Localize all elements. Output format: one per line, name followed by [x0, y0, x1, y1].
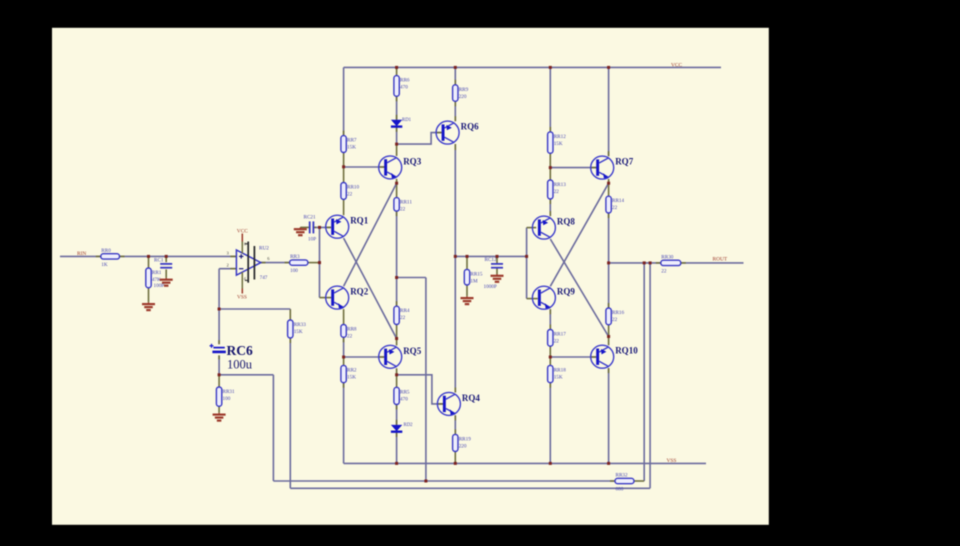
svg-text:220: 220	[459, 443, 467, 449]
wire RC21 ground lead	[300, 226, 309, 228]
resistor RR6	[394, 76, 410, 97]
wire RR31 to ground	[218, 406, 220, 413]
svg-text:RR5: RR5	[400, 389, 410, 395]
svg-text:1000P: 1000P	[484, 284, 497, 290]
wire RC12 to ground	[496, 268, 498, 274]
wire RR3 to base node	[308, 262, 320, 264]
transistor RQ10	[591, 345, 614, 368]
wire RC1 tap down	[165, 256, 167, 262]
svg-text:15K: 15K	[347, 145, 356, 151]
svg-text:22: 22	[347, 192, 353, 198]
junction RR15 tap	[466, 255, 469, 258]
junction VSS-RR19	[454, 462, 457, 465]
svg-text:100: 100	[223, 396, 231, 402]
svg-text:RR18: RR18	[554, 367, 567, 373]
svg-text:RR6: RR6	[400, 78, 410, 84]
wire RR6 to diode RD1	[396, 96, 398, 120]
svg-text:RR7: RR7	[347, 138, 357, 144]
junction op-amp inverting node	[218, 308, 221, 311]
wire RC12 tap	[496, 256, 498, 263]
wire column B from VCC to RR6	[396, 67, 398, 75]
wire RQ6 base lead	[397, 133, 442, 145]
wire node line C1 to F	[455, 255, 526, 257]
svg-text:RR30: RR30	[661, 254, 674, 260]
resistor RR3	[290, 254, 308, 274]
svg-text:680: 680	[616, 487, 624, 493]
wire op-amp inverting input	[219, 268, 236, 270]
wire RR0 to op-amp plus input	[120, 255, 237, 257]
wire RQ10 base	[550, 356, 596, 358]
wire RR16 to node E2	[608, 325, 610, 337]
wire node A1 to RR10	[343, 167, 345, 183]
svg-text:RQ6: RQ6	[461, 122, 480, 132]
resistor RR7	[341, 136, 357, 153]
junction RQ7 base node	[549, 166, 552, 169]
wire RQ4 emitter to RR19	[454, 415, 456, 434]
junction RQ5 emitter node	[395, 373, 398, 376]
junction RC12 tap	[496, 255, 499, 258]
svg-text:RC6: RC6	[227, 343, 253, 358]
svg-text:100u: 100u	[227, 358, 253, 372]
svg-text:RR13: RR13	[554, 182, 567, 188]
wire RQ8 base	[527, 227, 537, 229]
wire base tie RQ1 RQ2	[319, 227, 321, 297]
junction RQ3 base node	[342, 165, 345, 168]
wire node D1 to RR13	[549, 168, 551, 180]
svg-text:RR17: RR17	[554, 332, 567, 338]
ground at RC21	[294, 227, 307, 235]
junction VSS-RR18	[549, 462, 552, 465]
wire output after RR30 to ROUT	[681, 262, 744, 264]
svg-text:VSS: VSS	[667, 458, 677, 464]
wire bottom feedback line 1 right part	[634, 480, 644, 482]
svg-text:22: 22	[400, 315, 406, 321]
wire node B3 to RR4	[396, 278, 398, 307]
wire feedback drop 1	[643, 263, 645, 481]
capacitor RC21	[304, 214, 317, 242]
wire RR2 to VSS rail	[343, 383, 345, 464]
svg-text:22: 22	[347, 334, 353, 340]
resistor RR9	[453, 85, 469, 102]
transistor RQ2	[326, 286, 349, 309]
transistor RQ5	[379, 345, 402, 368]
svg-text:22: 22	[661, 268, 667, 274]
resistor RR19	[453, 434, 472, 451]
wire branch down to bottom feedback line	[425, 278, 427, 482]
wire node B1 to RQ3 collector	[396, 144, 398, 156]
svg-text:RQ3: RQ3	[403, 156, 422, 166]
op-amp RU2	[236, 250, 260, 275]
wire RD2 to VSS rail	[396, 432, 398, 464]
resistor RR30	[661, 254, 681, 274]
ground at RR1	[142, 302, 155, 310]
junction RQ10 base node	[549, 356, 552, 359]
resistor RR12	[548, 132, 567, 153]
wire op-amp inverting node branch	[219, 308, 290, 310]
wire RC6 node branch	[219, 374, 273, 376]
wire RD1 to node B1	[396, 127, 398, 144]
wire VSS rail	[344, 462, 706, 464]
wire RR9 to RQ6 emitter	[454, 101, 456, 121]
resistor RR10	[341, 183, 360, 200]
wire RC1 to ground	[165, 269, 167, 278]
svg-text:1M: 1M	[470, 278, 478, 284]
svg-text:RR0: RR0	[101, 248, 111, 254]
wire node line RR15 RC12 taps	[466, 256, 468, 269]
svg-text:RR31: RR31	[223, 389, 236, 395]
svg-text:RR16: RR16	[612, 310, 625, 316]
svg-text:470: 470	[400, 396, 408, 402]
wire node B2 to RR11	[396, 183, 398, 197]
junction RQ5 base node	[342, 356, 345, 359]
wire RQ5 base	[344, 356, 385, 358]
op-amp power bars	[245, 242, 255, 283]
svg-text:22: 22	[554, 189, 560, 195]
junction RQ3 emitter node	[395, 182, 398, 185]
junction RR3 node	[318, 261, 321, 264]
resistor RR11	[394, 198, 412, 213]
svg-text:220: 220	[459, 94, 467, 100]
svg-text:VSS: VSS	[237, 295, 247, 301]
svg-text:RR12: RR12	[554, 134, 567, 140]
junction VCC-RR9	[454, 66, 457, 69]
transistor RQ6	[436, 121, 459, 144]
op-amp VCC pin	[241, 234, 243, 254]
wire cross-couple RQ3 emitter to RQ2 collector	[344, 183, 397, 286]
wire bottom feedback line 1 left part	[273, 480, 615, 482]
resistor RR8	[341, 325, 357, 340]
junction VCC-RQ7	[607, 66, 610, 69]
junction output node	[607, 261, 610, 264]
wire node A2 to RR2	[343, 357, 345, 365]
wire RR14 to output node	[608, 213, 610, 263]
wire RR5 to diode RD2	[396, 405, 398, 425]
wire RR8 to node A2	[343, 337, 345, 357]
svg-text:RQ9: RQ9	[557, 287, 576, 297]
wire RQ5 emitter to node B5	[396, 368, 398, 375]
resistor RR2	[341, 365, 357, 382]
svg-text:15K: 15K	[554, 374, 563, 380]
svg-text:10P: 10P	[308, 237, 316, 243]
wire column C VCC to RR9	[454, 67, 456, 84]
resistor RR5	[394, 387, 410, 404]
wire node C1 to RQ4 collector	[454, 256, 456, 392]
wire node E1 to RR14	[608, 183, 610, 196]
wire RQ3 base	[344, 166, 386, 168]
junction VSS-RD2	[395, 462, 398, 465]
wire RC6 to node	[218, 355, 220, 374]
svg-text:RD1: RD1	[402, 118, 412, 123]
wire RR1 to ground	[148, 288, 150, 303]
wire op-amp inverting node down	[218, 269, 220, 309]
ground at RR15	[461, 296, 474, 304]
junction base tie right	[525, 255, 528, 258]
svg-text:15K: 15K	[554, 141, 563, 147]
wire RQ3 emitter to node B2	[396, 179, 398, 183]
junction RD1-RQ6 base	[395, 143, 398, 146]
wire RR4 to node B4	[396, 325, 398, 339]
resistor RR15	[464, 269, 483, 285]
wire RR1 tap down	[148, 256, 150, 268]
svg-text:RR10: RR10	[347, 185, 360, 191]
svg-text:RC1: RC1	[154, 258, 164, 264]
svg-text:RD2: RD2	[404, 423, 414, 428]
capacitor RC1	[154, 258, 173, 290]
junction RC1 tap	[165, 255, 168, 258]
wire input line	[60, 255, 101, 257]
svg-text:RQ2: RQ2	[350, 287, 369, 297]
junction RQ7 emitter node	[607, 182, 610, 185]
svg-text:VCC: VCC	[237, 229, 248, 235]
wire column E VCC to RQ7 collector	[608, 67, 610, 156]
svg-text:RR32: RR32	[616, 473, 629, 479]
junction bottom line tap	[424, 480, 427, 483]
capacitor RC12	[484, 257, 504, 290]
junction VCC-RR6	[395, 66, 398, 69]
svg-text:RIN: RIN	[77, 251, 86, 257]
wire RR11 to node B3	[396, 211, 398, 277]
diode RD1	[391, 118, 412, 127]
diode RD2	[391, 423, 413, 432]
svg-text:8: 8	[244, 242, 246, 247]
junction feedback 1	[643, 261, 646, 264]
wire RR10 to RQ1 collector	[343, 199, 345, 215]
wire RQ4 base path	[397, 375, 443, 404]
svg-text:22: 22	[400, 207, 406, 213]
svg-text:22: 22	[612, 317, 618, 323]
wire column A upper (VCC to RR7)	[343, 67, 345, 135]
junction RR11-RR4 tap	[395, 276, 398, 279]
ground at RR31	[213, 413, 226, 421]
wire column D VCC to RR12	[549, 67, 551, 131]
transistor RQ8	[532, 216, 555, 239]
svg-text:RQ1: RQ1	[350, 216, 369, 226]
resistor RR1	[146, 268, 162, 288]
wire cross-couple RQ7 emitter to RQ9 collector	[550, 183, 608, 286]
wire output node to RR16	[608, 263, 610, 308]
svg-text:747: 747	[260, 275, 268, 281]
capacitor RC6 (polarized)	[210, 344, 226, 352]
wire RR33 to op-amp node	[289, 309, 291, 320]
transistor RQ3	[379, 156, 402, 179]
svg-text:RQ8: RQ8	[557, 217, 576, 227]
wire node B5 to RR5	[396, 375, 398, 388]
wire node E2 to RQ10 collector	[608, 337, 610, 346]
junction VSS-RQ10	[607, 462, 610, 465]
junction VCC-RR12	[549, 66, 552, 69]
transistor RQ9	[532, 286, 555, 309]
wire RQ2 emitter to RR8	[343, 309, 345, 324]
wire base tie column F	[526, 228, 528, 299]
ground at RC12	[491, 274, 504, 282]
svg-text:RR3: RR3	[290, 254, 300, 260]
resistor RR4	[394, 306, 410, 324]
svg-text:RR4: RR4	[400, 308, 410, 314]
resistor RR33	[288, 320, 307, 338]
wire node B4 to RQ5 collector	[396, 339, 398, 346]
svg-text:RR15: RR15	[470, 271, 483, 277]
svg-text:ROUT: ROUT	[713, 257, 728, 263]
op-amp VSS pin	[241, 272, 243, 293]
svg-text:RR33: RR33	[294, 322, 307, 328]
wire node D2 to RR18	[549, 357, 551, 365]
wire RR13 to RQ8 collector	[549, 199, 551, 216]
junction node C1	[454, 255, 457, 258]
svg-text:RR11: RR11	[400, 200, 412, 206]
junction RQ1 base	[318, 226, 321, 229]
transistor RQ7	[591, 156, 614, 179]
wire op-amp node to RC6	[218, 309, 220, 344]
svg-text:RC12: RC12	[485, 257, 498, 263]
wire RQ2 base	[320, 297, 332, 299]
wire RR7 to node A1	[343, 153, 345, 167]
svg-text:VCC: VCC	[671, 63, 682, 69]
svg-text:RR9: RR9	[459, 87, 469, 93]
svg-text:RQ5: RQ5	[403, 346, 422, 356]
svg-text:RR8: RR8	[347, 327, 357, 333]
resistor RR32	[615, 473, 634, 493]
svg-text:470: 470	[400, 85, 408, 91]
resistor RR0	[101, 248, 120, 268]
wire feedback riser to RR33	[289, 338, 291, 488]
svg-text:RQ10: RQ10	[615, 346, 638, 356]
wire output line	[609, 262, 661, 264]
wire cross-couple RQ8 emitter to node E2	[550, 239, 608, 337]
resistor RR14	[606, 196, 625, 213]
svg-text:RR1: RR1	[152, 270, 162, 276]
ground at RC1	[160, 278, 173, 286]
wire RQ1 base	[313, 226, 331, 228]
wire RQ10 emitter to VSS rail	[608, 368, 610, 463]
resistor RR13	[548, 180, 567, 199]
svg-text:RQ7: RQ7	[615, 157, 634, 167]
wire feedback drop 2	[649, 263, 651, 488]
svg-text:15K: 15K	[347, 374, 356, 380]
junction RQ5 collector node	[395, 337, 398, 340]
svg-text:100: 100	[290, 268, 298, 274]
junction RR1 tap	[147, 255, 150, 258]
junction feedback 2	[649, 261, 652, 264]
wire op-amp output	[261, 262, 290, 264]
wire node B3 branch right	[397, 277, 426, 279]
junction RC6-RR31 node	[218, 373, 221, 376]
wire RR19 to VSS rail	[454, 452, 456, 464]
svg-text:RC21: RC21	[304, 214, 317, 220]
svg-text:RR2: RR2	[347, 367, 357, 373]
resistor RR18	[548, 365, 567, 382]
junction RQ10 collector node	[607, 335, 610, 338]
wire feedback riser to RC6 node	[272, 375, 274, 481]
svg-text:15K: 15K	[294, 329, 303, 335]
svg-text:RR14: RR14	[612, 198, 625, 204]
svg-text:RQ4: RQ4	[462, 393, 481, 403]
resistor RR16	[606, 308, 625, 325]
svg-text:RU2: RU2	[259, 245, 269, 251]
resistor RR31	[216, 387, 235, 406]
wire node to RR31	[218, 375, 220, 387]
transistor RQ1	[326, 215, 349, 238]
svg-text:22: 22	[554, 339, 560, 345]
wire RQ7 base	[550, 167, 597, 169]
transistor RQ4	[437, 392, 460, 415]
svg-text:RR19: RR19	[459, 436, 472, 442]
wire RQ9 base	[527, 298, 538, 300]
wire RR15 to ground	[466, 285, 468, 296]
wire cross-couple RQ1 emitter to node B4	[344, 238, 397, 338]
wire RQ7 emitter to node E1	[608, 179, 610, 183]
svg-text:100P: 100P	[154, 283, 165, 289]
wire RR12 to node D1	[549, 153, 551, 167]
svg-text:1K: 1K	[101, 262, 108, 268]
wire RR18 to VSS rail	[549, 383, 551, 464]
wire bottom feedback line 2	[290, 487, 650, 489]
svg-text:22: 22	[612, 205, 618, 211]
schematic sheet	[52, 28, 769, 525]
resistor RR17	[548, 330, 567, 347]
wire RQ6 collector down to node C1	[454, 144, 456, 256]
wire RR17 to node D2	[549, 346, 551, 357]
wire VCC rail	[344, 66, 721, 68]
wire RQ9 emitter to RR17	[549, 309, 551, 329]
